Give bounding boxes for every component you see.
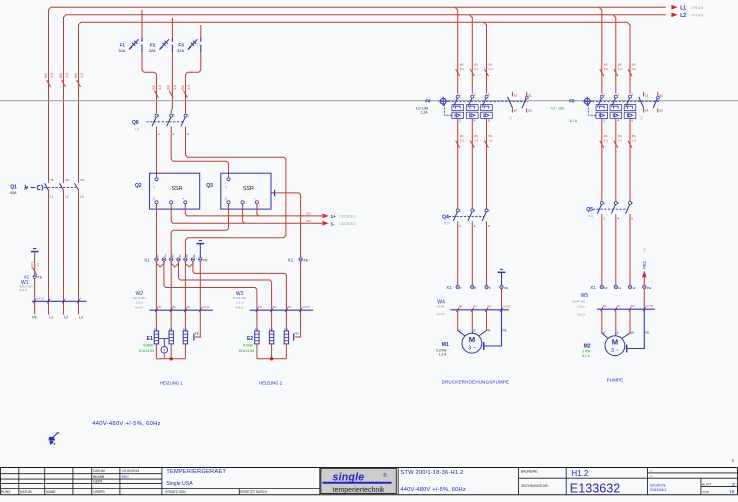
svg-text:T2: T2 xyxy=(65,178,69,182)
title VON xyxy=(702,489,735,494)
heater E1 elements xyxy=(154,327,187,360)
svg-text:3 ~: 3 ~ xyxy=(468,346,476,352)
label PUMPE xyxy=(607,378,623,383)
svg-text:13: 13 xyxy=(514,94,518,98)
title ZEICHNUNGS-NR xyxy=(521,484,550,488)
wire Q2 minus (1-) xyxy=(171,204,322,223)
svg-text:3: 3 xyxy=(172,254,174,258)
svg-text:5.0: 5.0 xyxy=(640,116,644,120)
svg-text:4,0: 4,0 xyxy=(187,85,191,90)
svg-text:EPLAN P8: EPLAN P8 xyxy=(650,483,665,487)
svg-text:F1: F1 xyxy=(120,43,126,48)
svg-text:M: M xyxy=(612,338,618,347)
svg-text:®: ® xyxy=(383,472,387,479)
switch Q1 pole 3 xyxy=(75,178,84,199)
svg-text:GNYE: GNYE xyxy=(302,305,310,309)
svg-text:1,5: 1,5 xyxy=(632,138,637,142)
svg-text:32A: 32A xyxy=(177,48,184,53)
svg-text:GNYE: GNYE xyxy=(503,304,511,308)
title ERSETZT DURCH xyxy=(240,490,268,494)
supply end labels xyxy=(32,316,82,320)
terminal strip X1 label xyxy=(144,258,150,263)
title eq labels xyxy=(650,469,652,479)
wire bus to F4 pole 5 xyxy=(484,22,493,93)
grid column 4 xyxy=(731,458,734,463)
SSR Q2 pin + xyxy=(181,198,187,204)
svg-text:SSR: SSR xyxy=(171,186,182,192)
svg-text:DATUM: DATUM xyxy=(20,490,32,494)
svg-text:6,0: 6,0 xyxy=(618,67,623,71)
terminal X1:PE heater xyxy=(199,258,208,263)
svg-text:6,1 A: 6,1 A xyxy=(570,119,578,123)
svg-text:S1HF BN: S1HF BN xyxy=(133,296,146,300)
wire F5 to Q5 xyxy=(614,118,623,201)
wire Q4 to X1 xyxy=(471,221,473,285)
wire label BK 4,0 xyxy=(181,84,191,97)
svg-text:PE: PE xyxy=(304,258,308,262)
svg-text:10: 10 xyxy=(604,286,608,290)
SSR Q2 pin - xyxy=(167,199,173,204)
svg-text:4,0: 4,0 xyxy=(50,73,54,78)
svg-text:HEIZUNG 2: HEIZUNG 2 xyxy=(259,380,283,385)
svg-text:Single USA: Single USA xyxy=(166,481,193,487)
motor breaker F4 label xyxy=(416,98,431,114)
switch Q1 pole 1 xyxy=(45,178,54,199)
svg-text:9.0kW: 9.0kW xyxy=(243,343,253,347)
net arrow L1 xyxy=(671,5,703,11)
label DRUCKERHOEHUNGSPUMPE xyxy=(442,379,510,384)
marker glyph xyxy=(49,433,60,445)
wire Q3 minus join xyxy=(243,204,245,223)
svg-text:GEPR: GEPR xyxy=(93,479,103,483)
wire Q2 plus (1+) xyxy=(185,204,322,216)
svg-text:H1.2: H1.2 xyxy=(571,469,588,478)
svg-text:BK: BK xyxy=(488,304,492,308)
wire X1:5 to E1 L3 xyxy=(184,261,186,331)
svg-text:BU: BU xyxy=(307,212,311,216)
svg-text:9.0kW: 9.0kW xyxy=(143,343,153,347)
svg-text:6,0: 6,0 xyxy=(604,67,609,71)
svg-text:BN: BN xyxy=(258,305,262,309)
svg-text:+: + xyxy=(181,198,185,200)
SSR Q3 PE tab xyxy=(271,190,275,196)
jumper X1:3-X1:4 xyxy=(171,261,178,267)
cable W4 xyxy=(437,300,511,316)
svg-text:BK: BK xyxy=(152,84,156,89)
terminal X1:3 xyxy=(170,254,174,261)
fuse F3 xyxy=(177,37,201,53)
svg-text:14: 14 xyxy=(645,109,649,113)
cable W2 xyxy=(133,291,213,312)
svg-text:L2: L2 xyxy=(64,316,68,320)
cable W1 label xyxy=(19,280,33,292)
svg-text:1,5: 1,5 xyxy=(489,138,494,142)
svg-text:EN61346-2: EN61346-2 xyxy=(650,488,666,492)
terminal X1:5 xyxy=(184,254,188,261)
title Single USA xyxy=(166,481,193,487)
svg-text:BN: BN xyxy=(186,305,190,309)
wire F1 to Q6 xyxy=(142,52,157,114)
wire F4 to Q4 xyxy=(456,118,465,208)
svg-text:6,1 A: 6,1 A xyxy=(582,354,590,358)
switch Q1 pole 2 xyxy=(60,178,69,199)
svg-text:BEARB: BEARB xyxy=(93,475,105,479)
svg-text:-: - xyxy=(238,199,242,200)
svg-text:4,0: 4,0 xyxy=(80,73,84,78)
wire X1:3 to E1 L2 xyxy=(170,261,172,331)
svg-text:L1: L1 xyxy=(680,5,686,11)
svg-text:PE1: PE1 xyxy=(642,260,647,269)
svg-text:440V-480V +/-5%, 60Hz: 440V-480V +/-5%, 60Hz xyxy=(400,487,466,493)
svg-text:HEIZUNG 1: HEIZUNG 1 xyxy=(160,380,184,385)
contactor Q6 link xyxy=(147,121,184,123)
svg-text:BN: BN xyxy=(287,305,291,309)
title BLATT xyxy=(702,482,735,487)
contactor Q4 xyxy=(442,208,490,227)
svg-text:BK: BK xyxy=(631,304,635,308)
svg-text:BK: BK xyxy=(617,304,621,308)
switch Q1 handle xyxy=(25,185,43,191)
svg-text:-: - xyxy=(167,199,171,200)
svg-text:PE: PE xyxy=(645,331,649,335)
wire L3 bus xyxy=(79,22,631,314)
wire bus to F5 pole 5 xyxy=(628,37,637,93)
svg-text:63A: 63A xyxy=(10,191,17,195)
svg-text:/ X2:32 8.0: / X2:32 8.0 xyxy=(339,215,356,219)
PE earth symbol above X1 xyxy=(197,241,205,258)
wire bus to F5 pole 1 xyxy=(599,7,608,93)
svg-text:T3: T3 xyxy=(80,178,84,182)
wire label BK 4,0 phase L2 xyxy=(59,72,69,86)
wire F5 to Q5 xyxy=(600,118,609,201)
svg-text:1,5: 1,5 xyxy=(474,138,479,142)
svg-text:10.8-11.64: 10.8-11.64 xyxy=(238,349,254,353)
wire X1:4 to E2 L2 xyxy=(179,261,272,331)
svg-text:L1: L1 xyxy=(49,316,53,320)
svg-text:GNYE: GNYE xyxy=(645,304,653,308)
svg-text:M: M xyxy=(469,335,475,344)
wire Q4 to X1 xyxy=(486,221,488,285)
wire Q6-3 to Q3 xyxy=(171,127,228,178)
svg-text:61: 61 xyxy=(528,94,532,98)
heater E2 PE bar xyxy=(294,332,299,341)
net arrow L2 xyxy=(671,13,703,19)
svg-text:BN: BN xyxy=(172,305,176,309)
wire X1:PE to W4 xyxy=(501,289,503,310)
svg-text:X1: X1 xyxy=(446,285,452,290)
svg-text:BK: BK xyxy=(44,72,48,77)
svg-text:L1: L1 xyxy=(50,195,54,199)
logo single xyxy=(323,471,392,493)
svg-text:6,0: 6,0 xyxy=(489,67,494,71)
net arrow PE1 xyxy=(642,248,647,285)
heater E1 label xyxy=(138,336,154,353)
svg-text:4x1,5: 4x1,5 xyxy=(577,312,585,316)
svg-text:BN: BN xyxy=(273,305,277,309)
motor M1 label xyxy=(436,342,449,357)
svg-text:BLATT: BLATT xyxy=(702,483,711,487)
svg-text:PE: PE xyxy=(647,286,651,290)
svg-text:1,2 m: 1,2 m xyxy=(236,301,244,305)
svg-text:temperiertechnik: temperiertechnik xyxy=(333,487,385,494)
svg-text:TEMPERIERGERAET: TEMPERIERGERAET xyxy=(166,469,226,475)
svg-text:1: 1 xyxy=(157,254,159,258)
label HEIZUNG 1 xyxy=(160,380,184,385)
svg-text:1-: 1- xyxy=(331,221,336,226)
svg-text:BN: BN xyxy=(157,305,161,309)
svg-text:6: 6 xyxy=(194,254,196,258)
title block left values xyxy=(122,469,139,479)
svg-text:BK: BK xyxy=(603,304,607,308)
contactor Q6 pole 5/6 xyxy=(181,114,189,136)
svg-text:F2: F2 xyxy=(150,43,156,48)
svg-text:32A: 32A xyxy=(118,48,125,53)
contactor Q5 xyxy=(586,201,633,220)
title TEMPERIERGERAET xyxy=(166,469,226,475)
svg-text:13: 13 xyxy=(645,94,649,98)
wire Q6-5 to X1:5 xyxy=(185,127,286,258)
svg-text:X1: X1 xyxy=(144,258,150,263)
terminal X1:PE right xyxy=(299,258,308,263)
wire Q3 tab to X1 PE xyxy=(275,193,300,258)
svg-text:+: + xyxy=(650,475,652,479)
wire label BU (1-) xyxy=(307,219,311,223)
svg-text:PE: PE xyxy=(295,332,299,336)
SSR Q3 box xyxy=(206,173,271,209)
svg-text:ERSETZT DURCH: ERSETZT DURCH xyxy=(240,490,268,494)
jumper X1:5-X1:6 xyxy=(185,261,193,267)
svg-text:M1: M1 xyxy=(442,342,449,348)
svg-text:L2: L2 xyxy=(65,195,69,199)
svg-text:4: 4 xyxy=(179,254,181,258)
svg-text:4,0: 4,0 xyxy=(173,85,177,90)
wire X1:1 to E1 L1 xyxy=(155,261,157,331)
wire X1:PE to E1 PE xyxy=(195,261,201,337)
svg-text:4,0: 4,0 xyxy=(36,262,40,266)
motor M2 label xyxy=(582,343,591,357)
title H1.2 xyxy=(571,469,588,478)
wire PE GNYE xyxy=(34,252,36,314)
svg-text:1,5: 1,5 xyxy=(618,138,623,142)
svg-text:12: 12 xyxy=(632,286,636,290)
svg-text:61: 61 xyxy=(660,94,664,98)
svg-text:6,0: 6,0 xyxy=(460,67,465,71)
wire X1:2 to E2 L1 xyxy=(164,261,257,331)
svg-text:X1: X1 xyxy=(590,285,596,290)
svg-text:4,0: 4,0 xyxy=(158,85,162,90)
switch Q1 link xyxy=(44,187,76,189)
svg-text:5.0: 5.0 xyxy=(444,221,449,225)
svg-text:W: W xyxy=(631,331,634,335)
svg-text:E1: E1 xyxy=(147,336,153,342)
title E133632 xyxy=(570,481,620,495)
svg-text:1,2 A: 1,2 A xyxy=(439,353,447,357)
contactor Q6 pole 3/4 xyxy=(167,114,175,136)
svg-text:NAME: NAME xyxy=(46,490,56,494)
terminal X1:2 xyxy=(162,254,166,261)
svg-text:32A: 32A xyxy=(149,48,156,53)
wire F1 feed xyxy=(141,10,143,38)
svg-text:F5: F5 xyxy=(569,98,575,103)
wire label GNYE 4,0 xyxy=(30,261,40,274)
terminals X1:10-12 PE xyxy=(590,285,651,290)
wire X1:6 to E2 L3 xyxy=(193,261,287,331)
wire Q2 T1 to X1:1 xyxy=(156,204,158,258)
svg-text:PE: PE xyxy=(203,258,207,262)
section separator line xyxy=(0,100,738,102)
terminal X1:1 xyxy=(155,254,159,261)
wire Q3 plus join xyxy=(257,204,259,216)
svg-text:18: 18 xyxy=(729,489,735,494)
svg-text:BAUREIHE:: BAUREIHE: xyxy=(521,469,538,473)
svg-text:ERSATZ VON: ERSATZ VON xyxy=(165,490,186,494)
wire F4 to Q4 xyxy=(470,118,479,208)
PE earth symbol xyxy=(31,249,39,252)
svg-text:6,0: 6,0 xyxy=(632,67,637,71)
motor breaker F5 label xyxy=(551,98,578,123)
wire Q4 to X1 xyxy=(457,221,459,285)
svg-text:14: 14 xyxy=(514,109,518,113)
SSR Q3 pin T1 xyxy=(225,197,230,204)
motor breaker F5 xyxy=(583,92,664,123)
svg-text:4x4,0: 4x4,0 xyxy=(135,305,143,309)
svg-text:X1: X1 xyxy=(288,258,294,263)
svg-text:/ F7 4.0: / F7 4.0 xyxy=(692,14,704,18)
terminal X1:4 xyxy=(177,254,181,261)
heater E1 PE bar xyxy=(194,332,199,341)
jumper X1:1-X1:2 xyxy=(156,261,164,267)
svg-text:=: = xyxy=(650,469,652,473)
wire X1:PE to W5 xyxy=(643,289,645,309)
contactor Q6 label xyxy=(132,120,139,132)
svg-text:ZEICHNUNGS-NR.:: ZEICHNUNGS-NR.: xyxy=(521,484,550,488)
terminal X1 PE (right) label xyxy=(288,258,294,263)
svg-text:BK: BK xyxy=(473,304,477,308)
svg-text:W5: W5 xyxy=(581,293,589,299)
wire Q3 T1 to X1:3 xyxy=(171,204,228,258)
svg-text:L3: L3 xyxy=(79,316,83,320)
svg-text:DRUCKERHOEHUNGSPUMPE: DRUCKERHOEHUNGSPUMPE xyxy=(442,379,510,384)
switch Q1 label xyxy=(10,184,17,194)
svg-text:BK: BK xyxy=(59,72,63,77)
svg-text:7.3: 7.3 xyxy=(134,127,139,131)
wire X1:PE right to E2 PE xyxy=(295,261,301,337)
wire bus to F5 pole 3 xyxy=(613,15,622,94)
svg-text:3 KW: 3 KW xyxy=(582,349,591,353)
cable W1 line xyxy=(32,296,87,303)
svg-text:E133632: E133632 xyxy=(570,481,620,495)
svg-text:EEC: EEC xyxy=(122,475,130,479)
heater E2 elements xyxy=(255,327,289,360)
logo box xyxy=(321,468,397,493)
svg-text:BU: BU xyxy=(307,219,311,223)
label mains rating xyxy=(92,421,161,427)
wire label BU (1+) xyxy=(307,212,311,216)
wire F2 to Q6 xyxy=(171,52,172,114)
PE earth above X1:PE M1 xyxy=(498,269,506,285)
wire Q6-1 to Q2 xyxy=(156,127,158,178)
net arrow 1- xyxy=(322,221,355,226)
title voltage xyxy=(400,487,466,493)
svg-text:6,0: 6,0 xyxy=(474,67,479,71)
svg-text:62: 62 xyxy=(660,109,664,113)
wire L2 bus xyxy=(64,15,666,315)
svg-text:W: W xyxy=(487,328,490,332)
SSR Q3 pin L1 xyxy=(225,178,230,189)
svg-text:PUMPE: PUMPE xyxy=(607,378,623,383)
svg-text:62: 62 xyxy=(528,109,532,113)
svg-text:2,8 m: 2,8 m xyxy=(577,304,585,308)
svg-text:S1HF BN: S1HF BN xyxy=(233,296,246,300)
svg-text:Q2: Q2 xyxy=(135,183,142,189)
svg-text:Q4: Q4 xyxy=(442,215,449,221)
wire label BK 4,0 xyxy=(167,84,177,97)
svg-text:Q6: Q6 xyxy=(132,120,139,126)
svg-text:PE: PE xyxy=(32,316,37,320)
wire F3 to Q6 xyxy=(186,52,201,114)
svg-text:11: 11 xyxy=(618,286,621,290)
SSR Q2 pin T1 xyxy=(153,197,158,204)
svg-text:L3: L3 xyxy=(80,195,84,199)
svg-text:VON: VON xyxy=(702,490,709,494)
wire F2 feed xyxy=(171,18,173,38)
svg-text:4,0: 4,0 xyxy=(65,73,69,78)
wire Q5 to X1 xyxy=(601,214,603,285)
wire F4 to Q4 xyxy=(485,118,494,208)
wire F5 to Q5 xyxy=(628,118,637,201)
title block grid xyxy=(1,468,738,495)
motor M2 xyxy=(602,309,650,355)
heater E2 label xyxy=(238,336,254,353)
terminal X1:6 xyxy=(191,254,195,261)
wire Q5 to X1 xyxy=(629,214,631,285)
svg-text:Q1: Q1 xyxy=(10,184,17,190)
svg-text:4x4,0: 4x4,0 xyxy=(19,288,27,292)
svg-text:4x4,0: 4x4,0 xyxy=(235,305,243,309)
svg-text:1,2A: 1,2A xyxy=(421,111,429,115)
wire Q5 to X1 xyxy=(615,214,617,285)
wire label BK 4,0 phase L3 xyxy=(74,72,84,86)
svg-text:1,5: 1,5 xyxy=(460,138,465,142)
svg-text:GNYE: GNYE xyxy=(201,305,209,309)
heater E1 thermostat xyxy=(159,339,169,359)
svg-text:L2: L2 xyxy=(680,13,686,19)
svg-text:SSR: SSR xyxy=(243,186,254,192)
svg-text:DATUM: DATUM xyxy=(93,469,105,473)
cable W3 xyxy=(233,291,313,312)
title BAUREIHE xyxy=(521,469,538,473)
svg-text:E2: E2 xyxy=(247,336,253,342)
cable W5 xyxy=(572,293,655,316)
svg-text:19.09.2013: 19.09.2013 xyxy=(122,469,139,473)
terminal X1 PE (left) xyxy=(24,275,42,280)
fuse F1 xyxy=(118,37,142,53)
motor breaker F4 xyxy=(439,92,532,123)
svg-text:440V-480V +/-5%, 60Hz: 440V-480V +/-5%, 60Hz xyxy=(92,421,161,427)
title block left labels xyxy=(1,469,105,494)
svg-text:BK: BK xyxy=(181,84,185,89)
net arrow 1+ xyxy=(322,214,355,219)
svg-text:10.8-11.64: 10.8-11.64 xyxy=(138,349,154,353)
svg-text:1+: 1+ xyxy=(331,214,337,219)
svg-text:URSPR: URSPR xyxy=(93,490,105,494)
SSR Q2 pin L1 xyxy=(153,178,158,189)
svg-text:PE: PE xyxy=(195,332,199,336)
SSR Q3 pin + xyxy=(252,198,258,204)
svg-text:5.0: 5.0 xyxy=(508,116,512,120)
SSR Q2 box xyxy=(135,173,200,209)
svg-text:0,3 - 10A: 0,3 - 10A xyxy=(551,107,565,111)
